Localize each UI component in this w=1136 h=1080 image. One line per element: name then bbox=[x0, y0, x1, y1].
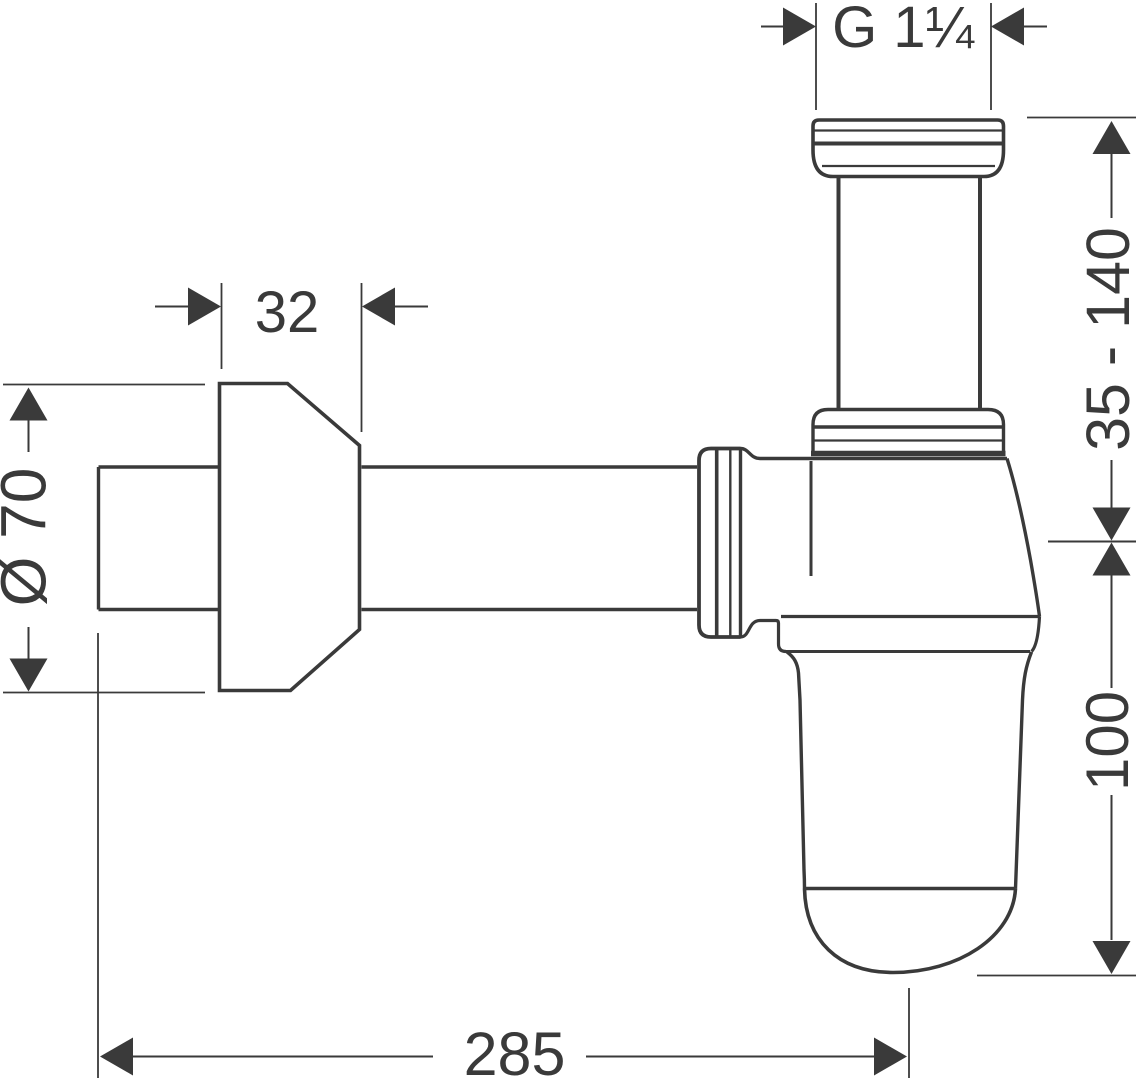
cup dome bottom bbox=[805, 889, 1016, 973]
dimension diameter 70 left bbox=[0, 385, 205, 693]
svg-text:35 - 140: 35 - 140 bbox=[1074, 227, 1136, 451]
cup right wall bbox=[1016, 652, 1032, 889]
wall flange escutcheon bbox=[220, 384, 360, 691]
trap collar right edge bbox=[1032, 617, 1040, 652]
svg-text:100: 100 bbox=[1074, 691, 1136, 791]
trap collar bottom line bbox=[786, 650, 1030, 653]
trap body right taper bbox=[1007, 459, 1040, 617]
svg-text:32: 32 bbox=[255, 280, 320, 345]
cup joint line bbox=[805, 887, 1016, 891]
trap body lower step line bbox=[781, 615, 1040, 618]
dimension 285 bottom bbox=[98, 633, 909, 1080]
dimension G 1 1/4 top bbox=[761, 0, 1047, 110]
vertical tailpipe bbox=[839, 177, 981, 409]
cup left wall bbox=[787, 652, 805, 889]
inlet neck outline bbox=[741, 621, 787, 652]
trap body top edge bbox=[741, 449, 1008, 459]
dimension 35 - 140 right bbox=[1027, 118, 1136, 542]
svg-text:G 1¼: G 1¼ bbox=[832, 0, 974, 60]
trap body inner vertical line bbox=[810, 461, 813, 576]
top union nut bbox=[813, 120, 1004, 177]
svg-text:Ø 70: Ø 70 bbox=[0, 468, 60, 607]
horizontal inlet pipe bbox=[99, 467, 698, 610]
dimension 100 right bbox=[977, 543, 1136, 976]
svg-text:285: 285 bbox=[464, 1020, 566, 1080]
dimension 32 top left bbox=[155, 280, 428, 432]
inlet connector nut bbox=[699, 449, 741, 638]
lower union nut bbox=[811, 410, 1006, 454]
